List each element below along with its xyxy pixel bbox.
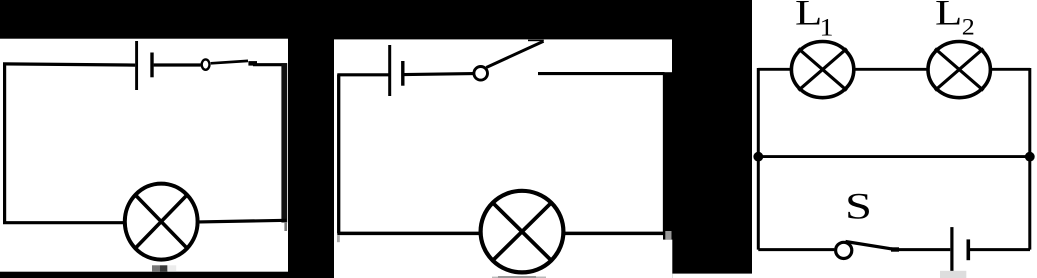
- panel 2 (middle white canvas main body): [334, 39, 663, 278]
- battery short plate (right circuit): [966, 239, 970, 260]
- panel 2 lower-right band: [663, 240, 672, 278]
- wire: switch to battery (right circuit): [897, 248, 950, 251]
- switch blade (left circuit): [211, 61, 248, 63]
- switch contact tick (left circuit): [248, 61, 257, 66]
- wire: left vertical (right circuit): [757, 68, 760, 250]
- switch pivot circle (middle circuit, open switch): [474, 67, 488, 81]
- wire: middle horizontal (right circuit): [758, 155, 1030, 158]
- wire: bottom horizontal (left circuit): [3, 220, 287, 222]
- switch blade (right circuit): [846, 242, 894, 250]
- artifact handle block below right battery: [940, 271, 966, 278]
- switch blade raised (middle circuit): [486, 41, 543, 67]
- switch contact thick segment (right circuit): [891, 247, 899, 251]
- battery cell short plate (left circuit): [150, 53, 153, 78]
- lamp (middle circuit): [481, 191, 564, 273]
- svg-text:S: S: [845, 186, 872, 227]
- wire: battery to switch: [154, 63, 201, 66]
- label L1: [795, 0, 834, 42]
- lamp L2: [928, 42, 990, 98]
- wire: left vertical (left circuit): [3, 65, 6, 223]
- svg-text:2: 2: [962, 15, 975, 40]
- wire: right vertical (middle circuit): [663, 74, 666, 234]
- wire: between L1 and L2: [855, 68, 926, 71]
- artifact shadow below middle-left corner: [337, 235, 340, 242]
- wire: fixed contact to right corner (middle circuit): [538, 72, 665, 75]
- panel 3 (right white canvas): [752, 0, 1037, 278]
- battery short plate (middle circuit): [401, 61, 404, 86]
- lamp (left circuit): [125, 184, 198, 260]
- wire: L2 to top right corner: [992, 68, 1030, 71]
- wire: left vertical (middle circuit): [337, 75, 340, 234]
- wire: right vertical thick bar (left circuit): [281, 63, 287, 222]
- lamp L1: [791, 42, 853, 98]
- svg-text:L: L: [935, 0, 962, 33]
- junction dot right: [1025, 152, 1035, 162]
- wire: top left segment (corner to L1): [758, 68, 790, 71]
- battery long plate (middle circuit): [388, 45, 391, 96]
- junction dot left: [753, 152, 763, 162]
- wire: right vertical (right circuit): [1028, 68, 1031, 250]
- wire: switch to top-right corner: [253, 63, 287, 66]
- artifact handle squares below left lamp: [152, 265, 176, 271]
- wire: top-left horizontal to battery (middle circuit): [337, 73, 388, 76]
- panel 1 (left white canvas): [0, 39, 288, 272]
- wire: battery to switch (middle circuit): [404, 74, 473, 75]
- battery long plate (right circuit): [950, 227, 953, 272]
- wire: battery to bottom right corner: [970, 248, 1030, 251]
- switch pivot circle (right circuit): [836, 242, 852, 258]
- panel 2 top band extension: [663, 39, 672, 72]
- switch pivot circle (left circuit, closed switch): [202, 59, 210, 69]
- panel 2 bottom sliver: [672, 274, 752, 278]
- wire stub below right corner (left circuit): [284, 222, 287, 231]
- artifact handle square right-middle (middle panel): [665, 231, 671, 240]
- wire: bottom horizontal (middle circuit): [337, 232, 665, 236]
- wire: top-left horizontal to battery: [3, 64, 135, 65]
- svg-text:L: L: [795, 0, 822, 33]
- label L2: [935, 0, 975, 40]
- artifact handle strip below middle lamp: [492, 276, 546, 278]
- svg-text:1: 1: [820, 15, 834, 42]
- switch blade tip tick (middle circuit): [528, 40, 544, 42]
- battery cell long plate (left circuit): [135, 41, 138, 90]
- wire: bottom left segment to switch: [758, 248, 834, 251]
